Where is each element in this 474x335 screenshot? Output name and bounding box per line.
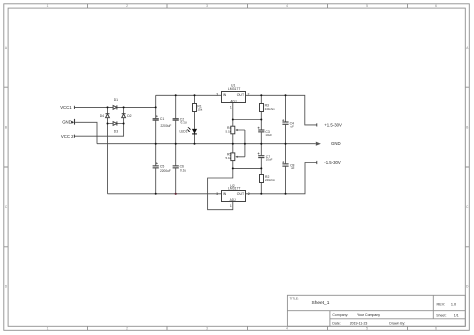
svg-text:B: B — [466, 125, 468, 129]
svg-text:ADJ: ADJ — [230, 99, 236, 103]
svg-text:D2: D2 — [127, 114, 131, 118]
svg-text:240ohm: 240ohm — [265, 178, 276, 182]
svg-text:ADJ: ADJ — [230, 198, 236, 202]
svg-text:5: 5 — [366, 327, 368, 331]
svg-text:TITLE:: TITLE: — [290, 297, 299, 301]
svg-text:uF: uF — [291, 166, 295, 170]
svg-text:Sheet_1: Sheet_1 — [312, 300, 330, 306]
svg-text:2: 2 — [126, 327, 128, 331]
svg-text:OUT: OUT — [237, 192, 245, 196]
svg-text:VCC 2: VCC 2 — [61, 134, 74, 139]
svg-text:5.1k: 5.1k — [226, 156, 232, 160]
svg-text:D3: D3 — [114, 130, 118, 134]
svg-text:1: 1 — [230, 204, 232, 208]
svg-text:+1.5-30V: +1.5-30V — [324, 123, 342, 128]
svg-text:LED1: LED1 — [180, 129, 188, 133]
svg-text:2019-11-23: 2019-11-23 — [350, 321, 368, 325]
svg-text:3: 3 — [216, 192, 218, 196]
svg-text:2: 2 — [248, 93, 250, 97]
svg-text:1: 1 — [47, 327, 49, 331]
svg-text:0.1u: 0.1u — [181, 121, 187, 125]
svg-text:OUT: OUT — [237, 93, 245, 97]
svg-text:Company:: Company: — [332, 313, 348, 317]
svg-text:0.1u: 0.1u — [180, 169, 186, 173]
svg-text:D4: D4 — [100, 114, 104, 118]
svg-text:1.0: 1.0 — [451, 302, 456, 306]
svg-text:2: 2 — [248, 192, 250, 196]
svg-text:4: 4 — [286, 4, 288, 8]
svg-text:1: 1 — [230, 105, 232, 109]
svg-text:1/1: 1/1 — [454, 313, 459, 317]
svg-text:D1: D1 — [114, 98, 118, 102]
svg-text:Date:: Date: — [332, 321, 340, 325]
svg-text:2: 2 — [126, 4, 128, 8]
svg-text:5.1k: 5.1k — [226, 129, 232, 133]
svg-text:6: 6 — [435, 327, 437, 331]
svg-text:6: 6 — [435, 4, 437, 8]
svg-text:4: 4 — [286, 327, 288, 331]
svg-text:3: 3 — [216, 93, 218, 97]
svg-text:Drawn By:: Drawn By: — [389, 321, 405, 325]
svg-text:15k: 15k — [197, 107, 202, 111]
svg-text:240ohm: 240ohm — [265, 107, 276, 111]
svg-text:uF: uF — [291, 125, 295, 129]
svg-text:LM317T: LM317T — [228, 187, 240, 191]
svg-text:-1.5-30V: -1.5-30V — [324, 160, 341, 165]
svg-text:IN: IN — [223, 192, 227, 196]
svg-text:B: B — [5, 125, 7, 129]
svg-text:GND: GND — [62, 120, 72, 125]
svg-text:3: 3 — [206, 327, 208, 331]
svg-text:2200uF: 2200uF — [160, 169, 171, 173]
svg-text:10uF: 10uF — [265, 133, 272, 137]
svg-text:GND: GND — [331, 141, 341, 146]
svg-text:Your Company: Your Company — [357, 313, 380, 317]
svg-text:C5: C5 — [160, 165, 164, 169]
svg-text:LM317T: LM317T — [228, 87, 240, 91]
svg-text:5: 5 — [366, 4, 368, 8]
svg-text:1: 1 — [47, 4, 49, 8]
svg-text:2200uF: 2200uF — [161, 124, 172, 128]
svg-text:3: 3 — [206, 4, 208, 8]
svg-text:C1: C1 — [160, 117, 164, 121]
svg-text:REV:: REV: — [437, 302, 446, 306]
svg-text:VCC1: VCC1 — [60, 105, 72, 110]
svg-text:10uF: 10uF — [266, 158, 273, 162]
svg-text:IN: IN — [223, 93, 227, 97]
svg-text:Sheet:: Sheet: — [436, 313, 446, 317]
